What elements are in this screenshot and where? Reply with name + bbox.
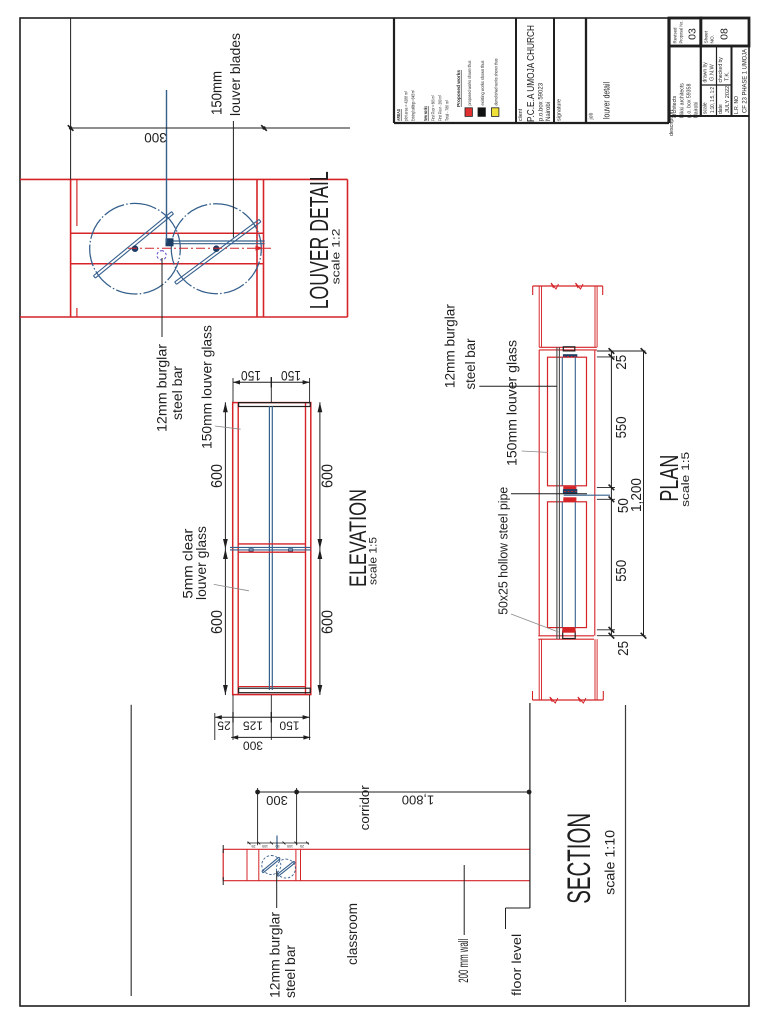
svg-text:signature: signature bbox=[557, 99, 563, 121]
svg-text:300: 300 bbox=[243, 739, 263, 753]
svg-text:03: 03 bbox=[687, 28, 699, 40]
svg-text:550: 550 bbox=[614, 416, 630, 438]
svg-text:Proposal No.: Proposal No. bbox=[679, 21, 685, 44]
svg-text:Nikki architects: Nikki architects bbox=[680, 83, 686, 118]
svg-text:steel bar: steel bar bbox=[283, 944, 298, 998]
svg-text:scale 1:10: scale 1:10 bbox=[602, 830, 618, 895]
svg-text:150mm louver glass: 150mm louver glass bbox=[505, 340, 520, 466]
svg-text:08: 08 bbox=[719, 28, 731, 40]
svg-text:50: 50 bbox=[276, 844, 280, 848]
svg-text:600: 600 bbox=[320, 464, 337, 488]
svg-text:150: 150 bbox=[279, 719, 299, 733]
svg-text:P.C.E.A UMOJA CHURCH: P.C.E.A UMOJA CHURCH bbox=[525, 25, 537, 122]
svg-text:125: 125 bbox=[243, 719, 263, 733]
svg-text:1:10, 1:5, 1:2: 1:10, 1:5, 1:2 bbox=[710, 87, 716, 113]
svg-text:Nairobi: Nairobi bbox=[694, 102, 700, 118]
svg-text:First Floor = 806 m²: First Floor = 806 m² bbox=[431, 95, 436, 121]
svg-text:150: 150 bbox=[241, 368, 261, 384]
svg-text:First Floor - 280 m²: First Floor - 280 m² bbox=[438, 95, 443, 121]
svg-text:steel bar: steel bar bbox=[170, 365, 185, 420]
svg-text:scale 1:5: scale 1:5 bbox=[680, 452, 692, 507]
svg-text:12mm burglar: 12mm burglar bbox=[442, 304, 457, 389]
svg-text:plot area = 4288 m²: plot area = 4288 m² bbox=[404, 91, 409, 121]
svg-text:1,800: 1,800 bbox=[402, 793, 435, 808]
svg-text:Existing buildings =3468 m²: Existing buildings =3468 m² bbox=[411, 90, 416, 121]
svg-text:AREAS: AREAS bbox=[396, 109, 401, 121]
svg-text:louver glass: louver glass bbox=[194, 526, 209, 600]
svg-text:100: 100 bbox=[287, 844, 293, 848]
svg-text:scale 1:5: scale 1:5 bbox=[368, 537, 380, 585]
svg-text:150: 150 bbox=[281, 368, 301, 384]
svg-text:JULY 2022: JULY 2022 bbox=[725, 86, 731, 113]
svg-text:150mm: 150mm bbox=[209, 71, 226, 115]
svg-text:floor level: floor level bbox=[509, 934, 524, 996]
svg-text:25: 25 bbox=[616, 641, 632, 656]
svg-text:150mm louver glass: 150mm louver glass bbox=[200, 325, 215, 449]
svg-text:Nairobi: Nairobi bbox=[546, 102, 552, 121]
svg-text:Revised: Revised bbox=[673, 27, 679, 43]
svg-text:200 mm wall: 200 mm wall bbox=[455, 939, 471, 983]
svg-text:Total - 786 m²: Total - 786 m² bbox=[445, 100, 450, 121]
svg-text:job: job bbox=[589, 112, 595, 120]
svg-text:date: date bbox=[718, 104, 724, 114]
svg-text:New works: New works bbox=[423, 106, 428, 121]
svg-text:25: 25 bbox=[300, 844, 304, 848]
svg-text:p.o. box 59358: p.o. box 59358 bbox=[687, 84, 693, 118]
svg-text:12mm burglar: 12mm burglar bbox=[268, 911, 283, 998]
svg-text:architects: architects bbox=[672, 95, 678, 118]
svg-text:classroom: classroom bbox=[345, 903, 360, 965]
svg-text:25: 25 bbox=[217, 719, 231, 733]
svg-text:600: 600 bbox=[209, 610, 226, 634]
svg-text:scale: scale bbox=[703, 102, 709, 114]
svg-text:existing works shown thus: existing works shown thus bbox=[480, 60, 485, 106]
svg-text:T.K.: T.K. bbox=[725, 71, 731, 81]
svg-text:Sheet: Sheet bbox=[704, 30, 710, 43]
svg-text:steel bar: steel bar bbox=[463, 338, 478, 389]
svg-text:50x25 hollow steel pipe: 50x25 hollow steel pipe bbox=[495, 487, 510, 615]
svg-text:SECTION: SECTION bbox=[561, 813, 597, 904]
svg-text:Proposed works: Proposed works bbox=[456, 70, 461, 107]
svg-text:client: client bbox=[518, 108, 524, 121]
svg-text:louver blades: louver blades bbox=[228, 33, 243, 116]
svg-text:600: 600 bbox=[209, 464, 226, 488]
svg-text:L.R. NO: L.R. NO bbox=[734, 96, 740, 114]
svg-text:25: 25 bbox=[614, 355, 630, 370]
svg-text:12mm burglar: 12mm burglar bbox=[155, 343, 170, 432]
svg-text:checked by: checked by bbox=[718, 57, 724, 83]
svg-text:100: 100 bbox=[262, 844, 268, 848]
svg-text:scale 1:2: scale 1:2 bbox=[331, 228, 343, 284]
svg-text:550: 550 bbox=[614, 560, 630, 582]
svg-text:G.N.W: G.N.W bbox=[710, 64, 716, 81]
svg-text:corridor: corridor bbox=[357, 785, 372, 831]
svg-text:CF 23 PHASE 1 UMOJA: CF 23 PHASE 1 UMOJA bbox=[742, 48, 749, 113]
svg-text:NO.: NO. bbox=[710, 35, 716, 44]
svg-text:LOUVER DETAIL: LOUVER DETAIL bbox=[304, 171, 334, 309]
svg-text:p.o.box 59023: p.o.box 59023 bbox=[539, 82, 545, 121]
svg-text:300: 300 bbox=[266, 793, 288, 808]
svg-text:25: 25 bbox=[252, 844, 256, 848]
svg-text:proposed works shown thus: proposed works shown thus bbox=[467, 60, 472, 106]
svg-text:600: 600 bbox=[320, 610, 337, 634]
svg-text:drawn by: drawn by bbox=[703, 62, 709, 83]
svg-text:demolished works shown thus: demolished works shown thus bbox=[494, 58, 499, 106]
svg-text:1,200: 1,200 bbox=[629, 478, 645, 512]
svg-text:louver detail: louver detail bbox=[602, 82, 612, 119]
svg-text:300: 300 bbox=[144, 130, 167, 145]
